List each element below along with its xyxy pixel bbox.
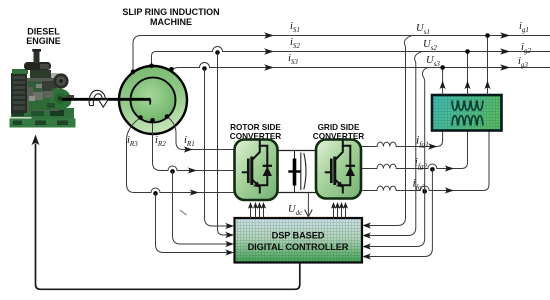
gate wire G3 (341, 207, 343, 219)
svg-text:DSP BASED: DSP BASED (272, 231, 325, 241)
grid line 2 with inductor, sensor hump, elbow to transformer leg (362, 131, 468, 169)
DSP right arrow 3 (362, 243, 371, 249)
arrow on ifg1 (428, 143, 437, 149)
shaft end tick (149, 99, 151, 104)
capacitor plate (thick, +) (293, 159, 297, 186)
arrow ig2 (500, 48, 510, 55)
DSP controller box (235, 218, 363, 263)
rotor terminal dot 2 (150, 118, 155, 123)
sensor dot on ifg3 (422, 189, 427, 194)
transformer grid texture (433, 96, 500, 129)
rotor wire iR2 with sensor hump (153, 121, 235, 171)
DC bus top (278, 150, 317, 152)
sensor wire iS2 to DSP (218, 53, 230, 236)
svg-text:ROTOR SIDE: ROTOR SIDE (230, 123, 281, 132)
DSP right arrow 2 (362, 232, 371, 238)
transformer winding bottom (452, 116, 483, 126)
diesel engine photo (stylised) (10, 49, 76, 128)
gate arrow R2 (253, 202, 258, 209)
svg-text:DIESEL: DIESEL (27, 27, 60, 37)
rotor wire iR1 (167, 117, 234, 150)
grid line 1 with inductor, elbow to transformer leg (362, 131, 443, 147)
stator wire 1 to line iS1 (133, 36, 141, 73)
gate arrow R3 (257, 202, 262, 209)
sensor dot on ifg2 (430, 167, 435, 172)
grid line 3 with inductor, sensor hump, elbow to transformer leg (362, 131, 490, 191)
speed control wire from DSP to engine (36, 144, 300, 289)
DSP right arrow 4 (362, 253, 371, 259)
sensor wire iS3 to DSP (205, 69, 230, 227)
sensor dot on iR2 (170, 169, 175, 174)
arrow ig1 (500, 32, 510, 39)
rotor terminal dot 3 (138, 115, 143, 120)
arrow on iS2 (264, 48, 274, 55)
arrow ig3 (500, 64, 510, 71)
stator terminal dot 2 (149, 64, 154, 69)
Udc sense wire (307, 193, 309, 217)
grid side converter box (316, 140, 361, 199)
capacitor curved plate (304, 153, 306, 190)
capacitor plus tick (288, 170, 300, 172)
rotor wire iR3 with sensor hump (127, 118, 235, 193)
DSP right arrow 1 (362, 222, 371, 228)
voltage hook Us3 with wire to DSP (368, 67, 429, 246)
slip ring induction machine inner (rotor) (131, 78, 176, 123)
transformer top lead 2 (467, 52, 469, 96)
gate arrow G2 (335, 202, 340, 209)
stator terminal dot 3 (169, 67, 174, 72)
arrow on iS1 (264, 32, 274, 39)
arrow Udc into DSP (open) (305, 210, 313, 217)
IGBT symbol U1 (242, 140, 272, 194)
arrow on iR1 (184, 146, 193, 152)
junction dot on iS1 (485, 33, 490, 38)
gate wire R3 (259, 207, 261, 219)
stator line iS2 with sensor hump (156, 47, 550, 52)
svg-text:ENGINE: ENGINE (26, 36, 61, 46)
gate wire R4 (263, 207, 265, 219)
svg-text:GRID SIDE: GRID SIDE (318, 123, 360, 132)
rotor terminal dot 1 (165, 114, 170, 119)
arrow on iR2 (188, 167, 197, 173)
gate wire G1 (333, 207, 335, 219)
transformer top lead 3 (487, 36, 489, 96)
stator wire 3 to line iS3 (172, 68, 179, 70)
slip ring induction machine outer (stator) (119, 66, 187, 134)
DSP grid texture (236, 219, 361, 261)
DSP left arrow 1 (225, 223, 234, 229)
rotation symbol on shaft (89, 90, 108, 107)
arrow on iR3 (190, 189, 199, 195)
stator line iS1 (141, 35, 550, 37)
sensor dot on iR3 (153, 191, 158, 196)
up arrow lead 3 (484, 81, 490, 90)
IGBT symbol U2 (325, 140, 355, 194)
gate arrow R1 (248, 202, 253, 209)
sensor dot on iS3 (202, 66, 207, 71)
up arrow lead 2 (464, 81, 470, 90)
sensor wire iR3 to DSP (156, 193, 230, 252)
gate arrow G4 (343, 202, 348, 209)
gate arrow G1 (331, 202, 336, 209)
DSP left arrow 3 (225, 241, 234, 247)
gate arrow R4 (261, 202, 266, 209)
rotor side converter box (235, 140, 278, 201)
gate wire G4 (345, 207, 347, 219)
stator wire 2 to line iS2 (152, 52, 157, 67)
transformer winding top (452, 101, 483, 111)
DSP left arrow 2 (225, 232, 234, 238)
gate wire R2 (255, 207, 257, 219)
gate wire G2 (337, 207, 339, 219)
up arrow lead 1 (440, 81, 446, 90)
junction dot on iS3 (440, 65, 445, 70)
stray pen mark (180, 210, 187, 215)
transformer box (432, 95, 502, 131)
DSP left arrow 4 (225, 249, 234, 255)
gate arrow G3 (339, 202, 344, 209)
shaft (62, 98, 151, 101)
voltage hook Us1 with wire to DSP (368, 36, 412, 226)
capacitor second plate (300, 153, 302, 191)
voltage hook Us2 with wire to DSP (368, 52, 422, 236)
arrow on iS3 (264, 64, 274, 71)
svg-text:SLIP RING INDUCTION: SLIP RING INDUCTION (122, 7, 219, 17)
sensor wire iR2 to DSP (173, 171, 230, 244)
arrow on ifg2 (445, 165, 454, 171)
capacitor connecting wire (294, 151, 296, 193)
svg-text:DIGITAL CONTROLLER: DIGITAL CONTROLLER (248, 242, 349, 252)
DC bus bottom (278, 192, 317, 194)
arrowhead into engine (31, 135, 39, 146)
stator terminal dot 1 (131, 70, 136, 75)
gate wire R1 (250, 207, 252, 219)
sensor dot on iS2 (215, 50, 220, 55)
sensor wire ifg2 to DSP (368, 169, 432, 256)
junction dot on iS2 (465, 49, 470, 54)
svg-text:MACHINE: MACHINE (150, 17, 192, 27)
arrow on ifg3 (445, 187, 454, 193)
transformer top lead 1 (442, 68, 444, 96)
stator line iS3 with sensor hump (179, 63, 550, 68)
